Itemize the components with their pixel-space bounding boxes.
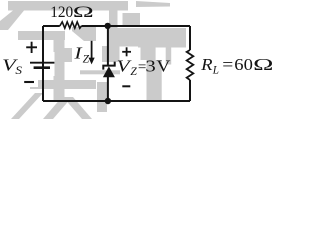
svg-text:Z: Z xyxy=(83,52,90,65)
svg-text:V: V xyxy=(156,57,170,76)
svg-text:Ω: Ω xyxy=(73,3,94,21)
wire: left side vertical xyxy=(42,26,44,101)
resistor 120ohm (series) xyxy=(60,22,82,28)
label IZ xyxy=(73,44,90,66)
svg-text:R: R xyxy=(200,55,213,74)
zener diode DZ anode triangle xyxy=(103,66,115,77)
battery plus sign xyxy=(26,42,37,53)
junction dot top (node A) xyxy=(105,23,111,29)
svg-text:120: 120 xyxy=(50,3,73,21)
svg-text:Z: Z xyxy=(130,65,137,78)
zener diode DZ cathode bar with bends xyxy=(103,62,114,70)
svg-text:=: = xyxy=(222,55,233,74)
source label VS xyxy=(2,56,22,77)
minus sign VZ xyxy=(122,85,130,87)
svg-text:60: 60 xyxy=(234,55,253,74)
wire: right side lower xyxy=(189,80,191,101)
wire: bottom rail xyxy=(43,100,190,102)
battery VS plates xyxy=(30,63,54,68)
svg-text:S: S xyxy=(15,64,22,77)
watermark (decorative) xyxy=(0,1,186,119)
svg-text:L: L xyxy=(212,63,219,76)
zener branch wire upper xyxy=(107,26,109,65)
plus sign VZ xyxy=(122,47,131,56)
svg-text:3: 3 xyxy=(145,57,155,76)
wire: resistor to top-right corner xyxy=(81,25,190,27)
load resistor RL (vertical zigzag) xyxy=(187,50,194,80)
battery minus sign xyxy=(24,81,34,83)
svg-text:Ω: Ω xyxy=(253,55,273,74)
wire: top rail from top-left corner to resistor xyxy=(43,25,60,27)
junction dot bottom (node B) xyxy=(105,98,111,104)
current arrow IZ xyxy=(89,41,95,65)
zener branch wire lower xyxy=(107,76,109,101)
label RL = 60 ohm xyxy=(200,55,273,76)
label 120ohm value xyxy=(50,3,94,21)
label VZ = 3V xyxy=(117,57,171,78)
white label backplates (part of background) xyxy=(18,40,138,87)
wire: right side upper xyxy=(189,26,191,50)
